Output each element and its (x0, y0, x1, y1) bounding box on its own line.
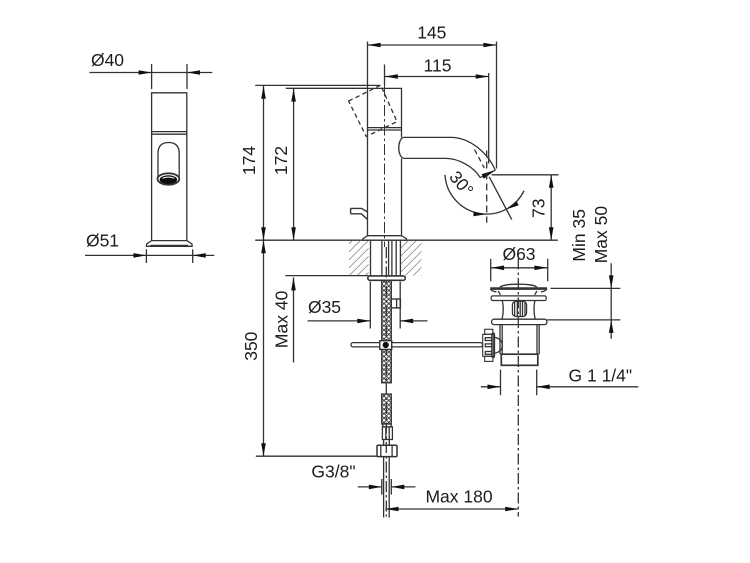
reference line 350 bottom (256, 455, 377, 457)
extension lines G3/8 (381, 479, 383, 495)
dimension line Ø40 (90, 72, 213, 74)
extension line 145 right (496, 42, 498, 169)
linkage adjuster body (483, 334, 494, 356)
handle separator side (368, 127, 402, 129)
drain knurl (512, 301, 526, 316)
dimension line 115 (385, 76, 489, 78)
handle side view (368, 88, 402, 137)
adjuster bulge (495, 337, 503, 353)
base plate bottom edge front (150, 245, 188, 247)
tip vertical centerline (486, 151, 488, 223)
dimension line Max 180 (386, 508, 519, 510)
extension line 115 right (488, 73, 490, 164)
base flare front (152, 240, 187, 242)
reference line 174 top (255, 84, 380, 86)
base flare side (368, 235, 402, 237)
dimension line Min Max (610, 263, 612, 339)
svg-text:G 1 1/4": G 1 1/4" (569, 365, 633, 385)
svg-text:Max 50: Max 50 (591, 206, 611, 264)
drain centerline (517, 259, 519, 517)
hose side fitting (391, 299, 400, 308)
rod horizontal (351, 343, 483, 347)
hose neck (383, 440, 385, 446)
spout top contour (403, 137, 495, 170)
extension line 115 left (384, 65, 386, 86)
dimension line 145 (368, 44, 497, 46)
dimension line Ø35 (308, 320, 371, 322)
deck hatch right (401, 241, 422, 276)
hose centerline (385, 247, 387, 517)
spout opening dark ellipse (160, 175, 178, 184)
svg-text:172: 172 (271, 146, 291, 175)
shank tube lines (371, 241, 401, 276)
dimension line 174 (263, 86, 265, 240)
svg-text:115: 115 (424, 55, 452, 75)
extension lines Ø51 (145, 249, 147, 263)
faucet front body outline (152, 93, 187, 241)
svg-text:174: 174 (239, 146, 259, 175)
linkage adjuster top cap (485, 329, 493, 334)
reference line locknut top (547, 319, 620, 321)
deck hatch left (349, 241, 369, 276)
dimension line 172 (293, 89, 295, 241)
spout root cap (399, 137, 404, 158)
reference line 172 top (286, 87, 368, 89)
tilted handle dashed (349, 85, 397, 136)
spout bottom contour (404, 158, 481, 177)
body side edges (367, 137, 369, 235)
extension line 145 left (367, 42, 369, 89)
dimension line Max 40 (293, 277, 295, 362)
drain body (500, 325, 539, 355)
braided hose upper (382, 281, 392, 383)
extension lines Ø40 (151, 64, 153, 89)
spout opening outer ellipse (158, 173, 180, 184)
adjuster pin capsule (492, 333, 495, 357)
arc arrow bottom (473, 212, 486, 216)
svg-text:Ø35: Ø35 (308, 297, 341, 317)
svg-text:30°: 30° (445, 167, 477, 200)
extension lines Ø35 (369, 282, 371, 329)
svg-text:Ø40: Ø40 (91, 50, 124, 70)
svg-text:350: 350 (241, 331, 261, 360)
svg-text:Min 35: Min 35 (569, 209, 589, 262)
hose end fitting (383, 424, 391, 427)
linkage adjuster bottom cap (485, 356, 493, 361)
drain neck (502, 301, 535, 319)
adjuster slots (485, 338, 492, 341)
hose nut (377, 445, 397, 456)
faucet centerline (384, 66, 386, 247)
deck underside line (285, 275, 368, 277)
braided hose lower (382, 394, 392, 424)
angle arc 30 (445, 175, 524, 214)
svg-text:Ø63: Ø63 (502, 244, 535, 264)
spout axis dashed (475, 150, 485, 169)
pop-up lever (351, 208, 368, 219)
handle separator front (152, 131, 187, 133)
dimension line 350 (263, 240, 265, 456)
cap disc (490, 287, 547, 290)
dimension line Ø51 (85, 254, 214, 256)
rod pivot ball (383, 342, 389, 348)
deck top line (255, 239, 558, 241)
reference line spout tip (492, 174, 559, 176)
spout tip arrow (482, 170, 496, 178)
extension lines G 1 1/4 (500, 370, 502, 396)
spout axis solid (489, 177, 512, 220)
spout opening highlight (163, 177, 175, 178)
spout recess arch front (158, 143, 179, 178)
drain locknut flange (492, 319, 547, 324)
cap cone (498, 291, 537, 295)
supply pipe (383, 457, 385, 518)
dimension line 73 (550, 175, 552, 240)
svg-text:145: 145 (417, 22, 446, 42)
drain thread section (501, 354, 538, 365)
svg-text:Max 40: Max 40 (272, 290, 292, 348)
arc arrow right (506, 201, 519, 209)
pop-up cap dome (500, 284, 537, 287)
dimension line G 1 1/4 (481, 386, 501, 388)
extension lines Ø63 (490, 259, 492, 282)
svg-text:Max 180: Max 180 (425, 486, 492, 506)
dimension line Ø63 (491, 267, 547, 269)
svg-text:G3/8": G3/8" (311, 461, 355, 481)
drain top flange (491, 296, 546, 301)
mounting washer (368, 276, 406, 280)
svg-text:73: 73 (529, 199, 549, 218)
reference line flange underside (551, 287, 621, 289)
svg-text:Ø51: Ø51 (86, 231, 119, 251)
dimension line G3/8 (358, 486, 382, 488)
spout end face (480, 170, 495, 177)
rod clamp square (380, 341, 392, 350)
